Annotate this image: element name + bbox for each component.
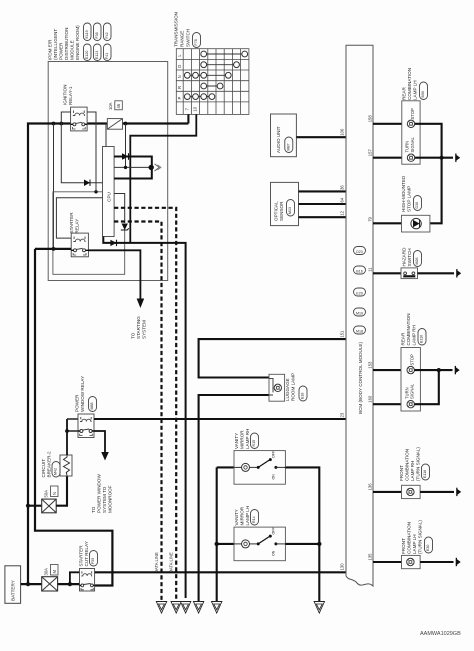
svg-text:POWER: POWER [59, 42, 64, 60]
wire BCM 158 to rear LH stop [373, 123, 405, 125]
wire CPU to starter relay coil [56, 198, 102, 238]
BCM label [358, 342, 363, 414]
ground rear LH [455, 154, 460, 162]
svg-text:LAMP LH: LAMP LH [413, 80, 418, 100]
svg-text:SIGNAL: SIGNAL [410, 136, 415, 152]
wire high-mounted stop lamp ground riser [430, 158, 442, 224]
wire CAN data line A dashed [114, 208, 176, 602]
IPDM inner frame [53, 192, 125, 274]
pin 158 [368, 115, 373, 123]
wire TRS pin7 drop [187, 114, 189, 123]
svg-text:N: N [177, 75, 182, 78]
power window relay label [75, 376, 86, 412]
svg-text:M87: M87 [286, 144, 290, 151]
contact circles [184, 51, 247, 99]
label data line B [169, 552, 174, 573]
svg-text:M88: M88 [90, 403, 94, 410]
svg-text:B16: B16 [356, 270, 362, 274]
fuse label 10A [108, 101, 122, 110]
svg-text:B110: B110 [420, 335, 424, 343]
wire starter cut relay coil feed [70, 572, 80, 584]
wire power window relay to BCM 23 [94, 418, 346, 420]
svg-text:RELAY: RELAY [75, 219, 80, 234]
node ignition feed junction B [59, 122, 63, 126]
connector M42 [52, 462, 60, 478]
circuit breaker-2 CB2 [60, 455, 72, 476]
svg-text:COMBINATION: COMBINATION [407, 522, 412, 554]
page arrow 5 [212, 602, 222, 614]
vanity mirror LH label [234, 506, 250, 526]
svg-text:50A: 50A [44, 490, 49, 498]
front combination lamp LH label [401, 520, 423, 554]
svg-text:MOONROOF: MOONROOF [108, 485, 113, 513]
vanity mirror lamp RH box [234, 450, 285, 484]
svg-text:36: 36 [340, 185, 345, 190]
node ignition feed junction A [52, 122, 56, 126]
arrow to power window system [101, 452, 109, 461]
ignition relay label [63, 85, 74, 105]
svg-text:TURN: TURN [405, 141, 410, 153]
pin 79 [368, 216, 373, 221]
BCM connector E29 [354, 288, 366, 296]
pin 11 [368, 267, 373, 272]
starter relay label [69, 212, 80, 234]
svg-text:D: D [177, 65, 182, 68]
svg-text:IPDM E/R: IPDM E/R [48, 39, 53, 60]
svg-text:LAMP RH: LAMP RH [410, 461, 415, 481]
svg-text:ON: ON [272, 550, 276, 556]
transmission range switch S1 contact table [176, 49, 249, 115]
connector R14 [251, 510, 259, 526]
wire optical sensor to BCM 36 [299, 190, 347, 192]
pin 64 [340, 197, 345, 202]
diode D2 [110, 240, 116, 246]
battery B1 [5, 566, 21, 604]
hazard switch box [401, 268, 418, 279]
svg-text:F55: F55 [91, 558, 95, 564]
svg-text:M: M [52, 570, 57, 574]
pin 36 [340, 185, 345, 190]
pin 151 [340, 330, 345, 338]
wire starter relay contact feed [35, 248, 71, 250]
pin 153 [368, 361, 373, 369]
connector M26 [414, 251, 422, 267]
rear combination lamp LH label [402, 68, 418, 100]
node vanity return junction [317, 542, 321, 546]
connector M13 [287, 200, 295, 217]
high-mounted stop lamp label [401, 175, 412, 212]
svg-text:MIRROR: MIRROR [240, 506, 245, 525]
svg-text:STOP LAMP: STOP LAMP [407, 186, 412, 212]
node rear RH ground junction [437, 368, 441, 372]
diode D3 [84, 180, 90, 187]
svg-text:(INTELLIGENT: (INTELLIGENT [53, 29, 58, 60]
svg-text:(TURN SIGNAL): (TURN SIGNAL) [418, 520, 423, 554]
BCM connector D23 [354, 247, 366, 255]
node power window feed junction [26, 504, 30, 508]
svg-text:158: 158 [368, 115, 373, 123]
svg-text:11: 11 [368, 267, 373, 272]
svg-text:HIGH-MOUNTED: HIGH-MOUNTED [401, 175, 406, 212]
connector M88 [89, 397, 97, 412]
diode D1 [122, 153, 129, 160]
svg-text:E121: E121 [95, 51, 99, 59]
pin 157 [368, 149, 373, 157]
svg-text:RANGE: RANGE [180, 31, 185, 47]
svg-text:COMBINATION: COMBINATION [406, 313, 411, 345]
svg-text:MIRROR: MIRROR [240, 430, 245, 449]
svg-text:E30: E30 [426, 545, 430, 551]
svg-text:LAMP LH: LAMP LH [412, 534, 417, 554]
svg-text:DATA LINE: DATA LINE [169, 552, 174, 573]
front combination lamp RH label [399, 447, 421, 481]
svg-text:(TURN SIGNAL): (TURN SIGNAL) [416, 447, 421, 481]
luggage room lamp label [285, 373, 296, 401]
wire ignition relay coil step [61, 112, 70, 124]
svg-text:COMBINATION: COMBINATION [407, 68, 412, 100]
svg-text:SENSOR: SENSOR [279, 201, 284, 221]
svg-text:CUT RELAY: CUT RELAY [84, 541, 89, 566]
page arrow 2 [171, 602, 181, 614]
fusible link 30A label [44, 565, 59, 576]
pin 106 [340, 128, 345, 136]
svg-text:VANITY: VANITY [234, 433, 239, 449]
svg-text:OPTICAL: OPTICAL [274, 201, 279, 221]
svg-text:E116: E116 [423, 470, 427, 478]
svg-text:SWITCH: SWITCH [186, 29, 191, 47]
wire BCM 11 to hazard switch [373, 272, 401, 274]
wire CPU sense branch with diode [61, 124, 102, 183]
wire CPU middle output [114, 166, 151, 168]
ground front RH [456, 488, 461, 496]
node battery junction 1 [26, 582, 30, 586]
wire starter relay output to starting system [88, 250, 140, 298]
front combination lamp LH box [402, 555, 421, 568]
svg-text:D30: D30 [415, 202, 419, 209]
svg-text:FRONT: FRONT [401, 538, 406, 554]
wire vanity RH return [285, 467, 319, 601]
page arrow 4 [193, 602, 203, 614]
wire starter relay feed drop [53, 124, 55, 249]
wire relay contact stub [67, 430, 78, 432]
svg-text:OFF: OFF [272, 450, 276, 458]
wire front LH to ground [420, 561, 453, 563]
fusible link 50A label [44, 486, 59, 498]
svg-text:E29: E29 [356, 292, 362, 296]
svg-text:BATTERY: BATTERY [11, 580, 16, 601]
svg-text:30A: 30A [44, 568, 49, 576]
svg-text:D23: D23 [356, 250, 363, 254]
svg-text:TURN: TURN [404, 387, 409, 399]
connector R15 [251, 433, 259, 449]
gear position letters [177, 54, 182, 100]
pin 12 [340, 210, 345, 215]
svg-text:M26: M26 [415, 258, 419, 265]
connector B18 [299, 386, 307, 401]
node starter feed junction [52, 247, 56, 251]
BCM connector M19 [354, 308, 366, 316]
wire ignition coil output [87, 112, 96, 192]
pin 23 [340, 412, 345, 417]
svg-text:AUDIO UNIT: AUDIO UNIT [276, 126, 281, 153]
wire power window feed [28, 505, 42, 507]
IPDM connector E121 [94, 44, 102, 61]
label to starting system [131, 316, 147, 339]
svg-text:N: N [52, 492, 57, 495]
pin number 7 [185, 107, 190, 110]
node vanity feed junction [215, 542, 219, 546]
wire CPU bottom output with diode [103, 237, 185, 599]
wire battery feed line 1 [28, 124, 188, 585]
svg-text:TO: TO [91, 506, 96, 513]
vanity mirror RH label [234, 429, 250, 449]
svg-text:CIRCUIT: CIRCUIT [41, 459, 46, 478]
svg-text:LAMP LH: LAMP LH [245, 506, 250, 526]
svg-text:F42: F42 [105, 32, 109, 38]
svg-text:E120: E120 [85, 51, 89, 59]
wire fuse output drop [125, 124, 127, 168]
svg-text:ON: ON [272, 474, 276, 480]
IPDM connector F42 [104, 23, 112, 41]
wire vanity LH return [285, 543, 319, 545]
wire power window output [94, 431, 105, 452]
IPDM connector E120 [84, 44, 92, 61]
wire BCM 151 to luggage room lamp [199, 339, 346, 377]
node fuse-to-CPU junction [124, 166, 127, 169]
svg-text:136: 136 [368, 483, 373, 491]
svg-text:STOP: STOP [410, 108, 415, 120]
svg-text:130: 130 [340, 563, 345, 571]
wire luggage room lamp return [199, 395, 269, 602]
wire optical sensor to BCM 12 [299, 216, 347, 218]
power window relay RLY3 [78, 414, 94, 438]
svg-text:SYSTEM: SYSTEM [142, 320, 147, 339]
svg-text:LAMP RH: LAMP RH [412, 325, 417, 345]
connector F55 [90, 551, 98, 567]
wire vanity feed riser [216, 467, 218, 601]
svg-text:VANITY: VANITY [234, 509, 239, 525]
svg-text:M42: M42 [54, 468, 58, 475]
svg-text:157: 157 [368, 149, 373, 157]
svg-text:SWITCH: SWITCH [407, 248, 412, 266]
wire CAN data line B dashed [114, 222, 161, 602]
svg-text:SYSTEM TO: SYSTEM TO [102, 486, 107, 513]
svg-text:REAR: REAR [401, 332, 406, 345]
page arrow 1 [156, 602, 166, 614]
svg-text:F38: F38 [95, 32, 99, 38]
hazard switch label [402, 247, 413, 267]
contact link rows [187, 54, 244, 97]
pin 160 [368, 395, 373, 403]
svg-text:POWER WINDOW: POWER WINDOW [97, 474, 102, 513]
svg-text:106: 106 [340, 128, 345, 136]
fusible link M 30A [42, 577, 58, 591]
wire front RH to ground [420, 491, 454, 493]
svg-text:WINDOW RELAY: WINDOW RELAY [80, 376, 85, 412]
svg-text:160: 160 [368, 395, 373, 403]
wire CPU output loop [114, 157, 152, 179]
node power branch junction [149, 165, 154, 170]
BCM body control module bar [346, 45, 373, 586]
node power window relay junction [65, 429, 69, 433]
wire audio unit to BCM 106 [296, 136, 346, 138]
svg-text:23: 23 [340, 412, 345, 417]
CPU U1 [103, 147, 115, 237]
IPDM connector E119 [84, 23, 92, 41]
svg-text:R15: R15 [252, 440, 256, 447]
wire BCM 153 to rear RH stop [373, 369, 404, 371]
svg-text:BREAKER-2: BREAKER-2 [47, 451, 52, 477]
svg-text:AAMWA1029GB: AAMWA1029GB [420, 631, 461, 637]
ground hazard switch [456, 269, 461, 277]
svg-text:M13: M13 [288, 207, 292, 214]
wire BCM 160 to rear RH turn [373, 403, 404, 405]
svg-text:IGNITION: IGNITION [63, 85, 68, 105]
connector D30 [414, 196, 422, 211]
svg-text:DISTRIBUTION: DISTRIBUTION [64, 28, 69, 60]
wire battery main [21, 583, 80, 585]
wire BCM 136 to front RH turn [373, 491, 402, 493]
svg-text:STARTING: STARTING [136, 316, 141, 339]
starter cut relay RLY4 [80, 569, 95, 592]
off-page arrow right [155, 164, 162, 171]
node fuse output junction [124, 122, 128, 126]
diagram code [420, 631, 461, 637]
svg-text:STOP: STOP [410, 354, 415, 366]
wire vanity RH feed [217, 466, 234, 468]
svg-text:R14: R14 [252, 516, 256, 523]
svg-text:OFF: OFF [272, 527, 276, 535]
wire hazard switch to ground [418, 272, 455, 274]
wire starter cut relay coil to BCM 130 [95, 571, 346, 573]
wire rear RH ground link [414, 370, 452, 404]
svg-text:153: 153 [368, 361, 373, 369]
wire vanity LH feed [217, 543, 234, 545]
svg-text:64: 64 [340, 197, 345, 202]
IPDM connector F38 [94, 23, 102, 41]
connector B110 [418, 329, 426, 346]
BCM connector M18 [354, 326, 366, 334]
svg-text:HAZARD: HAZARD [402, 247, 407, 267]
rear combination lamp RH label [401, 313, 417, 345]
connector M87 [285, 137, 293, 153]
IPDM E/R title text [48, 25, 81, 60]
svg-text:ENGINE ROOM): ENGINE ROOM) [75, 25, 80, 60]
luggage room lamp box [269, 374, 285, 401]
svg-text:LAMP RH: LAMP RH [245, 429, 250, 449]
svg-text:B90: B90 [421, 91, 425, 97]
svg-text:135: 135 [368, 553, 373, 561]
svg-text:MODULE: MODULE [70, 40, 75, 60]
svg-text:E119: E119 [85, 30, 89, 38]
IPDM E/R outer box [48, 62, 168, 281]
svg-text:REAR: REAR [402, 87, 407, 100]
wire circuit breaker to relay [66, 419, 68, 455]
arrow to starting system [137, 299, 145, 309]
pin number 10 [193, 106, 198, 111]
rear combination lamp RH box [401, 348, 420, 412]
svg-text:10A: 10A [108, 102, 113, 110]
wire BCM 79 to high-mounted stop lamp [373, 222, 402, 224]
BCM connector B16 [354, 266, 366, 274]
svg-text:CPU: CPU [107, 192, 112, 202]
pin 136 [368, 483, 373, 491]
audio unit box [271, 114, 297, 157]
connector E30 [425, 537, 433, 553]
svg-text:79: 79 [368, 216, 373, 221]
front combination lamp RH box [402, 485, 421, 498]
IPDM connector F41 [104, 44, 112, 61]
high-mounted stop lamp box [402, 215, 430, 232]
ground front LH [456, 558, 461, 566]
svg-text:COMBINATION: COMBINATION [405, 449, 410, 481]
svg-text:M18: M18 [356, 330, 363, 334]
label data line A [154, 552, 159, 573]
pin 135 [368, 553, 373, 561]
fuse 46 10A [107, 119, 122, 130]
ground rear RH [455, 366, 460, 374]
wire CPU top feed [105, 124, 107, 147]
fusible link N 50A [42, 499, 57, 513]
svg-text:POWER: POWER [75, 394, 80, 412]
svg-text:F41: F41 [105, 53, 109, 59]
starter cut relay label [79, 541, 90, 566]
wire relay coil stub [67, 418, 78, 420]
rear combination lamp LH box [402, 101, 420, 164]
connector F78 [193, 33, 201, 48]
label to power window system [91, 474, 113, 513]
svg-text:STARTER: STARTER [69, 212, 74, 234]
svg-text:46: 46 [116, 103, 121, 108]
zener diode D4 [121, 224, 129, 231]
svg-text:R: R [177, 86, 182, 89]
page arrow 6 [314, 602, 324, 614]
wire battery feed line 2 [35, 249, 112, 586]
transmission range switch title [174, 12, 191, 47]
circuit breaker label [41, 451, 52, 477]
svg-text:M19: M19 [356, 312, 363, 316]
connector E116 [422, 464, 430, 480]
svg-text:STARTER: STARTER [79, 545, 84, 567]
wire CPU zener branch [114, 194, 125, 224]
svg-text:BCM (BODY CONTROL MODULE): BCM (BODY CONTROL MODULE) [358, 342, 363, 414]
pin 130 [340, 563, 345, 571]
optical sensor box [271, 182, 299, 225]
node battery junction 2 [68, 582, 72, 586]
svg-text:TO: TO [131, 332, 136, 339]
wire rear LH ground link [415, 124, 453, 158]
wire 50A to circuit breaker [56, 476, 67, 506]
page arrow 3 [180, 602, 190, 614]
connector B90 [420, 82, 428, 100]
svg-text:FRONT: FRONT [399, 465, 404, 481]
ignition relay RLY1 [71, 107, 88, 131]
wire TRS pin10 drop [130, 114, 196, 243]
svg-text:12: 12 [340, 210, 345, 215]
svg-text:SIGNAL: SIGNAL [410, 383, 415, 399]
node coil-to-CPU junction [94, 190, 97, 193]
node rear LH ground junction [440, 156, 444, 160]
svg-text:TRANSMISSION: TRANSMISSION [174, 12, 179, 47]
svg-text:RELAY-1: RELAY-1 [68, 86, 73, 105]
svg-text:10: 10 [193, 106, 198, 111]
svg-text:B18: B18 [301, 393, 305, 399]
wire BCM 157 to rear LH turn [373, 157, 405, 159]
svg-text:151: 151 [340, 330, 345, 338]
wire optical sensor to BCM 64 [299, 203, 347, 205]
wire BCM 135 to front LH turn [373, 561, 402, 563]
svg-text:ROOM LAMP: ROOM LAMP [291, 373, 296, 401]
